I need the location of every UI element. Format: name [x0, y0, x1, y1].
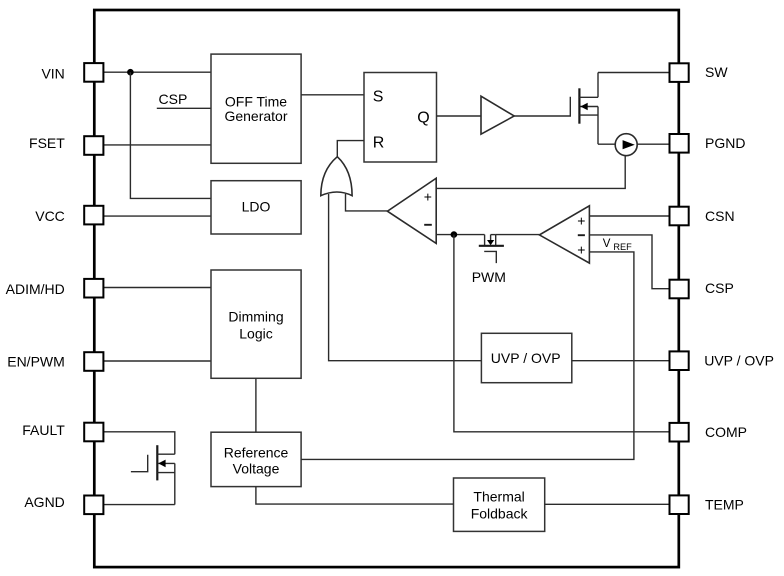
buffer gate driver: [481, 96, 514, 134]
svg-text:CSN: CSN: [705, 208, 735, 224]
block Thermal Foldback: [454, 478, 545, 531]
wire VREF from Reference Voltage to comparator U3: [301, 252, 634, 460]
wire gate driver to power MOSFET gate: [514, 97, 570, 116]
wire VIN junction down to LDO: [130, 72, 211, 198]
svg-text:+: +: [577, 242, 585, 258]
pin PGND: [670, 134, 689, 153]
wire CSP to comparator U3 minus: [589, 235, 669, 289]
svg-text:OFF Time: OFF Time: [225, 93, 287, 109]
wire ADIM/HD to Dimming Logic: [103, 287, 211, 289]
wire OR gate output to R input: [337, 141, 364, 158]
pin CSN: [670, 207, 689, 226]
wire CSN to comparator U3 plus: [589, 215, 669, 217]
svg-text:S: S: [373, 89, 384, 106]
wire FAULT pin to fault MOSFET drain: [103, 432, 175, 454]
svg-text:COMP: COMP: [705, 424, 747, 440]
wire Q output to gate driver: [437, 115, 482, 117]
svg-text:Q: Q: [417, 109, 429, 126]
wire current sense to PGND: [637, 143, 669, 145]
pin CSP: [670, 280, 689, 299]
svg-text:V: V: [603, 238, 611, 250]
svg-text:SW: SW: [705, 64, 728, 80]
wire UVP/OVP to OR gate left input: [329, 194, 482, 361]
block Reference Voltage: [211, 432, 301, 486]
pin VIN: [84, 63, 103, 82]
wire UVP/OVP block to UVP/OVP pin: [572, 360, 670, 362]
current source sense element: [615, 134, 637, 156]
wire Reference Voltage to Thermal Foldback: [256, 487, 454, 505]
pin COMP: [670, 423, 689, 442]
pin UVP/OVP: [670, 351, 689, 370]
pin TEMP: [670, 495, 689, 514]
node VIN junction: [127, 69, 134, 76]
svg-text:+: +: [424, 188, 432, 204]
block LDO: [211, 181, 301, 234]
wire power MOSFET drain to SW: [598, 72, 670, 74]
comparator U2 current sense: [387, 178, 436, 243]
svg-text:VCC: VCC: [35, 208, 65, 224]
svg-text:R: R: [373, 134, 385, 151]
wire fault MOSFET source to AGND pin: [103, 504, 175, 506]
svg-text:+: +: [577, 213, 585, 229]
svg-text:UVP / OVP: UVP / OVP: [704, 352, 774, 368]
svg-text:FSET: FSET: [29, 135, 65, 151]
block OFF Time Generator: [211, 54, 301, 163]
wire Thermal Foldback to TEMP pin: [545, 503, 670, 505]
svg-text:UVP / OVP: UVP / OVP: [491, 350, 561, 366]
svg-text:FAULT: FAULT: [22, 422, 65, 438]
IC boundary: [94, 10, 679, 567]
transistor PWM dimming MOSFET: [479, 235, 504, 264]
node comparator minus junction: [451, 231, 458, 238]
wire power MOSFET source to current sense: [598, 143, 615, 145]
wire CSP to OFF Time Generator: [157, 107, 211, 109]
block Dimming Logic: [211, 270, 301, 378]
block UVP / OVP: [481, 333, 571, 382]
wire EN/PWM to Dimming Logic: [103, 360, 211, 362]
pin VCC: [84, 206, 103, 225]
net VREF label: [603, 238, 632, 252]
wire junction to COMP pin: [454, 235, 670, 432]
pin SW: [670, 63, 689, 82]
svg-text:Voltage: Voltage: [233, 461, 280, 477]
svg-text:AGND: AGND: [24, 494, 64, 510]
svg-text:PGND: PGND: [705, 135, 745, 151]
svg-text:Logic: Logic: [239, 325, 272, 341]
svg-text:TEMP: TEMP: [705, 497, 744, 513]
svg-text:Reference: Reference: [224, 445, 289, 461]
svg-text:ADIM/HD: ADIM/HD: [6, 281, 65, 297]
comparator U3 regulation: [539, 206, 589, 263]
svg-text:LDO: LDO: [242, 198, 271, 214]
wire comparator plus input from current sense: [436, 156, 625, 189]
pin AGND: [84, 496, 103, 515]
svg-text:CSP: CSP: [705, 280, 734, 296]
svg-text:Dimming: Dimming: [228, 308, 283, 324]
svg-text:Generator: Generator: [224, 108, 287, 124]
wire FSET to OFF Time Generator: [103, 144, 211, 146]
wire Dimming Logic to Reference Voltage: [255, 378, 257, 432]
pin ADIM/HD: [84, 279, 103, 298]
svg-text:REF: REF: [613, 242, 632, 252]
svg-text:CSP: CSP: [159, 91, 188, 107]
svg-text:EN/PWM: EN/PWM: [7, 353, 65, 369]
OR gate: [321, 157, 352, 196]
wire comparator output to OR gate right input: [346, 194, 388, 211]
svg-text:Thermal: Thermal: [473, 489, 524, 505]
svg-text:VIN: VIN: [41, 65, 64, 81]
wire comparator minus input: [436, 234, 484, 236]
wire PWM MOSFET to comparator U3: [496, 234, 540, 236]
svg-text:PWM: PWM: [472, 269, 506, 285]
wire OFF Time Generator to S input: [301, 94, 364, 96]
pin EN/PWM: [84, 352, 103, 371]
transistor Q2 fault MOSFET: [131, 445, 175, 504]
transistor Q1 power MOSFET: [579, 73, 598, 145]
wire VIN to OFF Time Generator: [103, 71, 211, 73]
pin FAULT: [84, 423, 103, 442]
pin FSET: [84, 136, 103, 155]
SR latch U1: [364, 73, 437, 163]
wire VCC to LDO: [103, 215, 211, 217]
svg-text:Foldback: Foldback: [471, 506, 529, 522]
